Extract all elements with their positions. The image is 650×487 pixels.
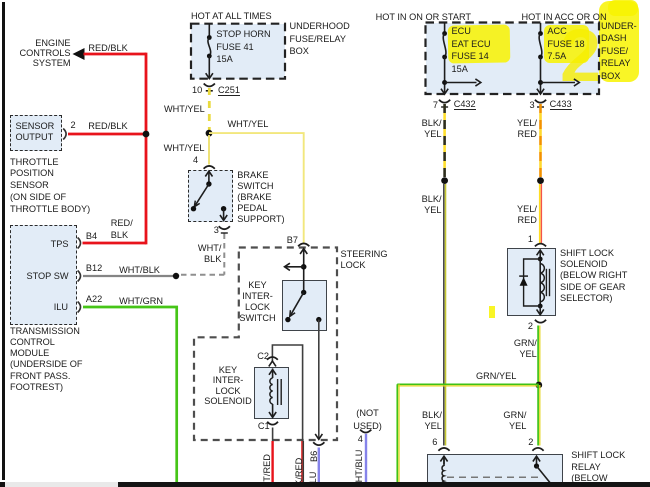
sensor output box: [10, 115, 62, 151]
text STOP SW: [20, 271, 69, 282]
text STOP HORN FUSE 41 15A: [216, 28, 270, 66]
relay linkage dashed: [447, 476, 539, 478]
bottom bar gray: [5, 482, 119, 487]
text ECU EAT ECU FUSE 14 15A: [452, 25, 491, 75]
wire WHT/BLU below B6: [318, 448, 320, 483]
under-dash fuse/relay box dashed border: [426, 23, 600, 95]
wire GRN/YEL horizontal: [397, 384, 539, 386]
text WHT/YEL label 3: [160, 143, 205, 154]
text WHT/BLK label: [119, 265, 160, 276]
text 2 (solenoid pin): [528, 321, 533, 332]
key interlock switch contacts and blade: [285, 290, 321, 323]
rotated label WHT/BLU at B6: [308, 469, 318, 487]
connector solenoid pin 1: [535, 244, 546, 247]
wire RED/BLK from sensor output pin 2: [68, 133, 146, 136]
wire WHT/BLU below pin 4: [365, 434, 367, 482]
wire GRN/YEL to relay pin 2: [538, 385, 540, 446]
highlight over ECU EAT ECU FUSE 14: [448, 24, 511, 63]
text STEERING LOCK: [341, 249, 388, 273]
text 1 (solenoid pin): [528, 234, 533, 245]
wire RED/BLK vertical: [145, 53, 148, 245]
node YEL/RED splice: [537, 177, 544, 184]
pin bracket TCM B4: [78, 238, 81, 249]
wire BLK/YEL dashed: [443, 104, 446, 177]
transmission control module box: [10, 225, 77, 325]
text 10: [192, 85, 202, 96]
wire RED/BLK to TPS pin B4: [83, 242, 147, 245]
text (NOT USED): [338, 407, 398, 433]
text B12: [86, 263, 102, 274]
connector relay pin 6: [438, 448, 449, 451]
text ACC FUSE 18 7.5A: [547, 25, 584, 63]
connector relay pin 2: [532, 448, 543, 451]
highlight over UNDER-DASH FUSE/RELAY BOX: [599, 1, 639, 82]
underhood fuse/relay box: [191, 24, 285, 79]
highlight over ACC FUSE 18 7.5A: [544, 25, 589, 63]
rotated label WHT/BLU at pin 4: [354, 447, 364, 487]
relay switch: [533, 456, 552, 484]
connector not-used pin 4: [360, 430, 371, 433]
wire YEL/RED dashed: [539, 104, 542, 177]
rotated label B6: [309, 450, 319, 462]
wire from B7 into key interlock switch: [300, 249, 307, 293]
highlight scribble shaped like 2 below 7.5A: [560, 22, 601, 90]
shift lock solenoid box: [507, 248, 557, 315]
brake switch contacts and blade: [191, 171, 227, 220]
connector solenoid pin 2: [535, 320, 546, 323]
wire WHT/YEL dashed below C251: [208, 88, 211, 130]
text BRAKE SWITCH caption: [237, 170, 284, 225]
node steering lock branch: [301, 264, 307, 270]
highlight knob top of UNDER-DASH blob: [608, 0, 638, 16]
connector C432: [439, 100, 450, 107]
connector C2: [267, 357, 278, 366]
text 4 (not used pin): [358, 434, 363, 445]
rotated label WHT/RED: [262, 453, 272, 487]
text UNDER-DASH FUSE/RELAY BOX: [601, 20, 637, 83]
node GRN/YEL junction: [535, 382, 542, 389]
text HOT AT ALL TIMES: [191, 11, 272, 22]
text pin 2: [71, 120, 76, 131]
node WHT/BLK junction: [173, 273, 179, 279]
text WHT/ BLK two line: [180, 243, 221, 265]
wire BLK/RED below boundary: [302, 441, 303, 482]
text RED/ BLK two line: [111, 218, 133, 241]
fuse ECU EAT ECU FUSE 14 15A: [441, 23, 481, 94]
wire RED/BLK to engine controls (arrow): [73, 48, 147, 60]
text 4 (brake switch pin): [193, 155, 198, 166]
text C1: [258, 421, 270, 432]
node WHT/YEL junction: [206, 130, 213, 137]
text THROTTLE POSITION SENSOR caption: [10, 157, 90, 216]
shift lock solenoid internals: [537, 250, 544, 315]
text YEL/RED upper: [495, 118, 537, 140]
connector C433: [535, 100, 546, 107]
text 7: [433, 100, 438, 111]
underhood fuse/relay box dashed border: [191, 24, 285, 79]
text C251: [218, 85, 240, 96]
text BLK/YEL middle: [400, 194, 442, 216]
text GRN/YEL two-line upper: [495, 338, 537, 360]
text C433: [550, 99, 572, 110]
key interlock solenoid box: [254, 367, 290, 419]
left black border: [2, 2, 5, 480]
text C2: [257, 351, 269, 362]
wire WHT/YEL solid horizontal and vertical to B7: [209, 133, 304, 242]
connector C1: [267, 422, 278, 425]
text BLK/YEL lower: [400, 410, 442, 432]
text GRN/YEL horizontal label: [476, 371, 516, 382]
text TRANSMISSION CONTROL MODULE caption: [10, 326, 82, 394]
solenoid coil: [540, 264, 549, 302]
text SHIFT LOCK SOLENOID caption: [560, 248, 627, 303]
wire BLK/YEL solid to relay pin 6: [444, 184, 446, 446]
connector brake switch pin 4: [204, 166, 215, 169]
arrow to steering lock mechanism: [285, 263, 304, 270]
text HOT IN ON OR START: [376, 12, 471, 23]
text YEL/RED lower: [495, 204, 537, 226]
fuse ACC FUSE 18 7.5A: [537, 23, 579, 94]
node RED/BLK junction: [143, 131, 150, 138]
wire GRN/YEL from solenoid pin 2: [538, 326, 540, 386]
wire WHT/GRN from A22: [83, 307, 177, 482]
fuse STOP HORN FUSE 41 15A: [206, 24, 213, 79]
bottom bar black: [118, 482, 650, 487]
key interlock solenoid coil: [269, 369, 281, 418]
brake switch box: [188, 170, 233, 222]
wire from C1 to boundary: [272, 428, 274, 442]
text HOT IN ACC OR ON: [522, 12, 607, 23]
text KEY INTERLOCK SWITCH caption: [228, 280, 288, 324]
diode branch: [519, 259, 540, 306]
wire WHT/YEL solid to brake switch pin 4: [208, 135, 210, 165]
bottom bar left black: [0, 482, 5, 487]
text B4: [86, 231, 97, 242]
pin bracket sensor output pin 2: [63, 129, 66, 140]
wire from C2 to steering lock exit (BLK/RED above boundary): [272, 345, 302, 441]
text A22: [86, 294, 102, 305]
text C432: [454, 99, 476, 110]
text SENSOR OUTPUT: [16, 121, 55, 143]
connector B6: [313, 442, 324, 445]
highlight small mark left of shift lock solenoid: [489, 306, 495, 318]
text 3 (brake switch pin): [214, 225, 219, 236]
text KEY INTERLOCK SOLENOID caption: [198, 365, 258, 407]
steering lock dashed boundary: [194, 248, 337, 441]
connector B7: [298, 243, 309, 246]
text UNDERHOOD FUSE/RELAY BOX: [290, 20, 350, 58]
rotated label BLK/RED: [294, 453, 304, 487]
text SHIFT LOCK RELAY caption: [571, 450, 625, 484]
wire WHT/BLK solid from B12: [83, 275, 176, 277]
text WHT/YEL label 2: [228, 119, 269, 130]
relay coil: [440, 456, 447, 486]
wire GRN/YEL down at left: [397, 384, 399, 482]
wire WHT/BLK dashed horizontal: [181, 274, 224, 276]
text 2 (relay pin): [528, 437, 533, 448]
text RED/BLK top: [88, 43, 127, 54]
wire WHT/BLK dashed vertical from brake switch pin 3: [223, 234, 225, 275]
pin bracket TCM B12: [78, 271, 81, 282]
connector C251: [204, 84, 215, 91]
text ENGINE CONTROLS SYSTEM: [10, 38, 71, 69]
text 3 (C433 pin): [530, 100, 535, 111]
wire from switch to B6: [315, 320, 322, 440]
text BLK/YEL upper: [400, 118, 442, 140]
text RED/BLK middle: [88, 121, 127, 132]
shift lock relay box: [427, 454, 563, 487]
text ILU: [30, 302, 68, 313]
connector brake switch pin 3: [219, 226, 230, 233]
wire YEL/RED solid to solenoid pin 1: [540, 184, 542, 244]
key interlock switch box: [282, 280, 327, 331]
text WHT/GRN label: [119, 296, 163, 307]
wire WHT/RED below boundary: [271, 441, 273, 482]
text 6 (relay pin): [432, 437, 437, 448]
pin bracket TCM A22: [78, 302, 81, 313]
text B7: [287, 235, 298, 246]
text TPS: [30, 239, 69, 250]
text WHT/YEL label 1: [160, 104, 205, 115]
node BLK/YEL splice: [441, 177, 448, 184]
text GRN/YEL lower: [484, 410, 526, 432]
under-dash fuse/relay box: [426, 23, 600, 95]
